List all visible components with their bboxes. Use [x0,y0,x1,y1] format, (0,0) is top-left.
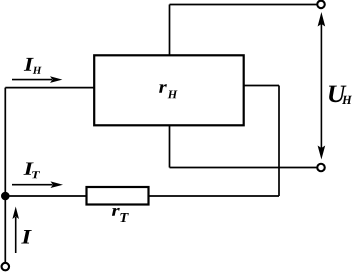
wire rH right side horizontal [244,85,279,87]
terminal bottom right [317,164,325,172]
label IH [24,58,42,74]
label IT [23,163,40,179]
label UH [329,86,352,104]
wire rT right segment [149,195,280,197]
resistor rT box [87,187,149,205]
arrow I (bottom left, pointing up) [15,217,17,253]
wire IH horizontal (left input to box) [5,87,95,89]
wire top-left vertical to box top [169,5,171,57]
label I [21,230,32,244]
wire box bottom vertical [169,125,171,168]
arrow UH double-headed vertical [320,24,322,148]
arrow IT [12,184,53,186]
wire right vertical (rT up to rH side) [278,86,280,197]
terminal top right [317,1,325,8]
label rH [159,84,177,98]
wire rT left segment [5,195,87,197]
wire top horizontal [170,4,322,6]
label rT [112,208,129,222]
arrow IH [12,79,52,81]
wire left vertical [4,88,6,263]
node junction dot [1,192,10,201]
terminal bottom left [2,263,10,271]
resistor rH box [94,55,244,125]
wire bottom output horizontal [170,167,322,169]
